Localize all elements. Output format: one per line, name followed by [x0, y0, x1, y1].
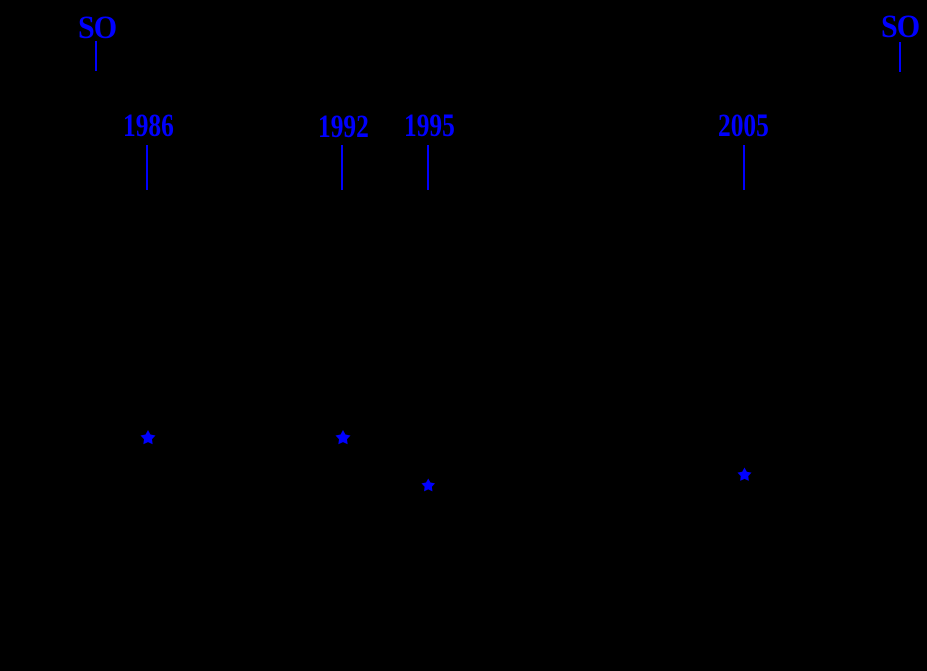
- label 1986: [123, 110, 174, 143]
- wire tick under 1992: [341, 145, 343, 190]
- label SO left: [78, 12, 116, 45]
- node star 1995: [421, 478, 436, 493]
- wire tick under 1986: [146, 145, 148, 190]
- label 1992: [318, 111, 369, 144]
- wire tick under SO left: [95, 41, 98, 71]
- label 2005: [718, 110, 769, 143]
- label 1995: [404, 110, 455, 143]
- wire tick under SO right: [899, 42, 901, 72]
- node star 2005: [737, 467, 752, 482]
- node star 1992: [335, 430, 351, 445]
- wire tick under 2005: [743, 145, 746, 190]
- label SO right: [881, 11, 919, 44]
- node star 1986: [140, 430, 156, 445]
- wire tick under 1995: [427, 145, 429, 190]
